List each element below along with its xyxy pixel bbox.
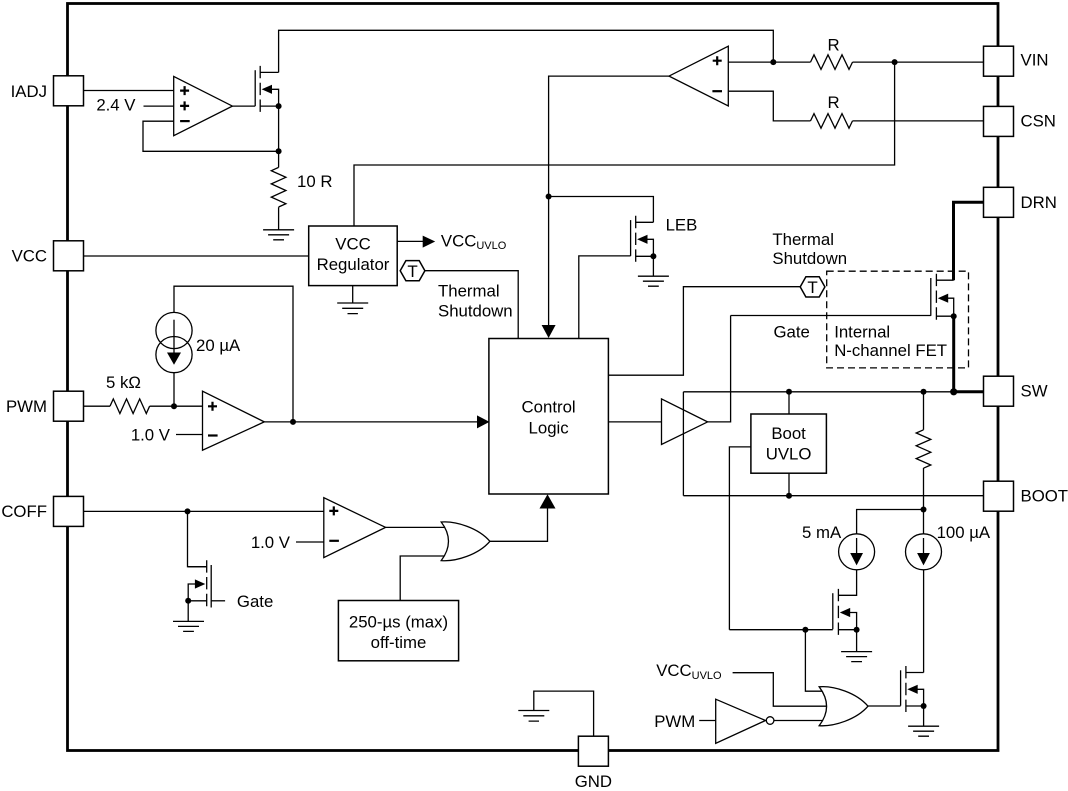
wire COFF pin to comparator U6 xyxy=(84,510,324,512)
resistor 10 R xyxy=(271,167,286,207)
svg-text:Gate: Gate xyxy=(237,592,273,611)
ground below 10R xyxy=(263,230,294,240)
svg-text:20 µA: 20 µA xyxy=(196,336,241,355)
wire 10R to ground xyxy=(278,207,280,230)
svg-text:2.4 V: 2.4 V xyxy=(96,96,136,115)
svg-text:VCC: VCC xyxy=(335,235,370,254)
wire Q5 drain to 100uA xyxy=(923,570,925,673)
wire U6 output to OR1 xyxy=(386,526,452,528)
node Q1 source xyxy=(276,103,282,109)
wire regulator VCCUVLO output xyxy=(397,240,423,242)
wire R to CSN pin xyxy=(853,120,984,122)
svg-text:UVLO: UVLO xyxy=(766,445,812,464)
svg-text:PWM: PWM xyxy=(654,712,695,731)
wire 20uA top loop to comparator output xyxy=(174,286,293,422)
wire Q6 gate stub xyxy=(211,600,225,602)
current source 5 mA xyxy=(839,534,875,570)
wire 20uA bottom to PWM node xyxy=(173,373,175,407)
node Q3 source xyxy=(951,313,957,319)
wire Boot UVLO bottom pin xyxy=(788,473,790,496)
node Boot UVLO top xyxy=(786,389,792,395)
inverter U5 xyxy=(716,699,774,743)
node OR2 branch xyxy=(802,627,808,633)
wire 5mA to Q4 drain xyxy=(838,570,856,596)
comparator U3 xyxy=(203,391,265,450)
node LEB source xyxy=(650,253,656,259)
wire PWM to inverter xyxy=(699,720,716,722)
wire COFF node down to Q6 drain xyxy=(188,511,207,566)
arrow VCCUVLO xyxy=(423,236,436,248)
wire Q3 drain to DRN pin (thick) xyxy=(954,202,984,280)
wire control logic thermal to T2 xyxy=(608,287,800,376)
ground below regulator xyxy=(337,303,368,314)
ground below Q4 xyxy=(841,652,872,662)
wire U2 output to control logic xyxy=(549,76,669,326)
wire Q1 source down xyxy=(278,106,280,167)
node COFF branch xyxy=(185,508,191,514)
thermal flag T2 xyxy=(800,277,825,297)
svg-text:Gate: Gate xyxy=(774,323,810,342)
svg-text:VCC: VCC xyxy=(12,247,47,266)
arrow into control logic bottom xyxy=(540,494,556,508)
node Boot UVLO bottom xyxy=(786,493,792,499)
node Q4 source xyxy=(854,627,860,633)
control logic block xyxy=(489,339,609,495)
pin SW xyxy=(984,376,1048,406)
resistor R (lower) xyxy=(811,114,853,129)
pin GND xyxy=(575,736,612,791)
wire Boot UVLO left pin down xyxy=(729,447,751,630)
svg-text:Boot: Boot xyxy=(771,424,806,443)
wire SW node to SW pin (thick) xyxy=(952,390,984,393)
pin IADJ xyxy=(11,76,84,106)
or-gate OR1 xyxy=(441,522,490,561)
svg-text:T: T xyxy=(407,262,417,281)
node bootstrap resistor top xyxy=(921,389,927,395)
wire Q1 drain to top rail xyxy=(279,30,774,72)
svg-text:COFF: COFF xyxy=(1,502,47,521)
op-amp U1 xyxy=(174,76,233,135)
svg-text:250-µs (max): 250-µs (max) xyxy=(349,613,448,632)
arrow into control logic left xyxy=(477,415,490,428)
wire U2 + input to VIN xyxy=(728,61,810,63)
transistor Q3 (internal N-channel FET) xyxy=(931,274,954,320)
buffer U4 xyxy=(662,399,708,445)
pin COFF xyxy=(1,496,83,526)
wire LEB drain branch xyxy=(549,197,654,223)
wire R to VIN pin xyxy=(853,61,984,63)
node current source feed xyxy=(921,507,927,513)
thermal flag T1 xyxy=(400,261,425,281)
svg-text:Shutdown: Shutdown xyxy=(438,302,513,321)
wire Q4 source to ground xyxy=(856,630,858,652)
ground below Q6 xyxy=(173,621,204,631)
wire U3 output to control logic xyxy=(264,421,478,423)
svg-text:Regulator: Regulator xyxy=(317,255,390,274)
wire T1 to control logic top xyxy=(425,271,518,339)
svg-text:5 mA: 5 mA xyxy=(802,523,842,542)
svg-text:Logic: Logic xyxy=(529,419,569,438)
transistor Q4 xyxy=(833,589,857,635)
wire Q4 gate line xyxy=(729,629,832,631)
svg-text:off-time: off-time xyxy=(371,633,427,652)
wire 1.0V to U3 - input xyxy=(176,434,203,436)
svg-text:VCCUVLO: VCCUVLO xyxy=(441,232,507,252)
ground below Q5 xyxy=(908,726,939,736)
svg-text:5 kΩ: 5 kΩ xyxy=(106,373,141,392)
resistor 5 kOhm xyxy=(110,399,150,414)
wire BOOT line xyxy=(683,495,983,497)
resistor R (upper) xyxy=(811,55,853,70)
node SW thick junction xyxy=(950,388,957,395)
transistor Q1 xyxy=(255,66,278,112)
transistor LEB xyxy=(631,216,654,262)
wire U2 - input to CSN xyxy=(728,91,810,121)
wire 250us box to OR1 lower input xyxy=(400,556,450,601)
svg-text:BOOT: BOOT xyxy=(1021,486,1068,505)
node VIN junction xyxy=(892,59,898,65)
svg-text:Thermal: Thermal xyxy=(772,230,834,249)
svg-text:LEB: LEB xyxy=(666,215,698,234)
wire U1 output to Q1 gate xyxy=(232,105,255,107)
pin BOOT xyxy=(984,481,1068,511)
wire regulator to ground xyxy=(352,286,354,303)
wire VCCUVLO to OR2 middle input xyxy=(733,673,830,707)
wire Q6 source to ground xyxy=(187,601,189,622)
wire resistor to comparator U3 xyxy=(150,405,203,407)
pin PWM xyxy=(6,391,84,421)
250-us off-time block xyxy=(338,601,458,661)
transistor Q5 xyxy=(901,666,924,712)
node PWM divider xyxy=(171,403,177,409)
wire branch to 5mA source xyxy=(857,510,924,534)
node Q6 source xyxy=(185,598,191,604)
pin CSN xyxy=(984,106,1056,136)
resistor bootstrap xyxy=(916,430,931,468)
wire Q3 source to SW (thick) xyxy=(952,315,955,392)
wire 2.4V to U1 second + input xyxy=(144,105,174,107)
wire PWM pin to resistor xyxy=(84,405,111,407)
arrow into control logic top xyxy=(542,325,556,338)
wire inverter to OR2 bottom input xyxy=(774,720,828,722)
or-gate OR2 xyxy=(819,687,868,726)
wire U1 feedback (minus input to source node) xyxy=(143,121,279,151)
wire Boot UVLO top pin xyxy=(788,392,790,414)
svg-text:Control: Control xyxy=(522,398,576,417)
svg-text:VIN: VIN xyxy=(1021,51,1049,70)
wire OR2 top input xyxy=(805,630,828,692)
svg-text:Thermal: Thermal xyxy=(438,281,500,300)
svg-text:Shutdown: Shutdown xyxy=(772,249,847,268)
Boot UVLO block xyxy=(751,414,827,473)
svg-text:R: R xyxy=(827,93,839,112)
svg-text:1.0 V: 1.0 V xyxy=(251,533,291,552)
svg-text:R: R xyxy=(827,36,839,55)
node Q5 source xyxy=(921,703,927,709)
comparator U6 xyxy=(324,498,386,558)
svg-text:PWM: PWM xyxy=(6,397,47,416)
svg-text:IADJ: IADJ xyxy=(11,82,47,101)
current source 100 uA xyxy=(906,534,942,570)
svg-text:VCCUVLO: VCCUVLO xyxy=(656,661,722,682)
svg-text:CSN: CSN xyxy=(1021,111,1056,130)
wire IADJ to op-amp U1 + input xyxy=(84,90,174,92)
ground internal xyxy=(518,711,549,722)
node top rail junction xyxy=(770,59,776,65)
ground below LEB xyxy=(638,276,669,286)
wire SW-BOOT connector xyxy=(682,392,684,496)
node 20uA loop junction xyxy=(290,419,296,425)
wire U4 output up to gate line xyxy=(708,316,731,422)
wire VIN junction to VCC regulator xyxy=(354,62,895,226)
svg-text:1.0 V: 1.0 V xyxy=(131,426,171,445)
VCC Regulator block xyxy=(309,226,398,286)
svg-text:GND: GND xyxy=(575,772,612,791)
wire LEB source to ground xyxy=(652,256,654,276)
wire SW line xyxy=(683,391,952,393)
op-amp U2 (current sense amp, points left) xyxy=(669,46,728,106)
wire Q5 source to ground xyxy=(923,706,925,726)
wire VCC pin to regulator xyxy=(84,255,309,257)
svg-text:N-channel FET: N-channel FET xyxy=(834,341,947,360)
wire resistor to current sources xyxy=(923,468,925,534)
node LEB branch xyxy=(546,194,552,200)
dashed box Internal N-channel FET xyxy=(827,271,969,368)
pin DRN xyxy=(984,187,1057,217)
svg-text:DRN: DRN xyxy=(1021,193,1057,212)
wire gate line to Q3 gate xyxy=(731,315,931,317)
wire OR1 output to control logic bottom xyxy=(490,508,548,541)
pin VIN xyxy=(984,46,1049,76)
wire LEB gate to control logic xyxy=(579,256,631,339)
node feedback junction xyxy=(276,148,282,154)
pin VCC xyxy=(12,241,84,271)
wire GND pin to internal ground xyxy=(534,691,594,736)
svg-text:10 R: 10 R xyxy=(297,172,332,191)
wire OR2 output to Q5 gate xyxy=(868,705,901,707)
wire control logic to buffer U4 xyxy=(608,421,661,423)
svg-text:T: T xyxy=(807,278,817,297)
wire SW to bootstrap resistor xyxy=(923,392,925,430)
svg-text:Internal: Internal xyxy=(834,323,890,342)
current source 20 uA xyxy=(156,312,192,372)
transistor Q6 (COFF discharge, mirrored) xyxy=(188,560,211,607)
svg-text:SW: SW xyxy=(1021,382,1048,401)
wire 1.0V to U6 - input xyxy=(296,541,324,543)
svg-text:100 µA: 100 µA xyxy=(937,523,991,542)
